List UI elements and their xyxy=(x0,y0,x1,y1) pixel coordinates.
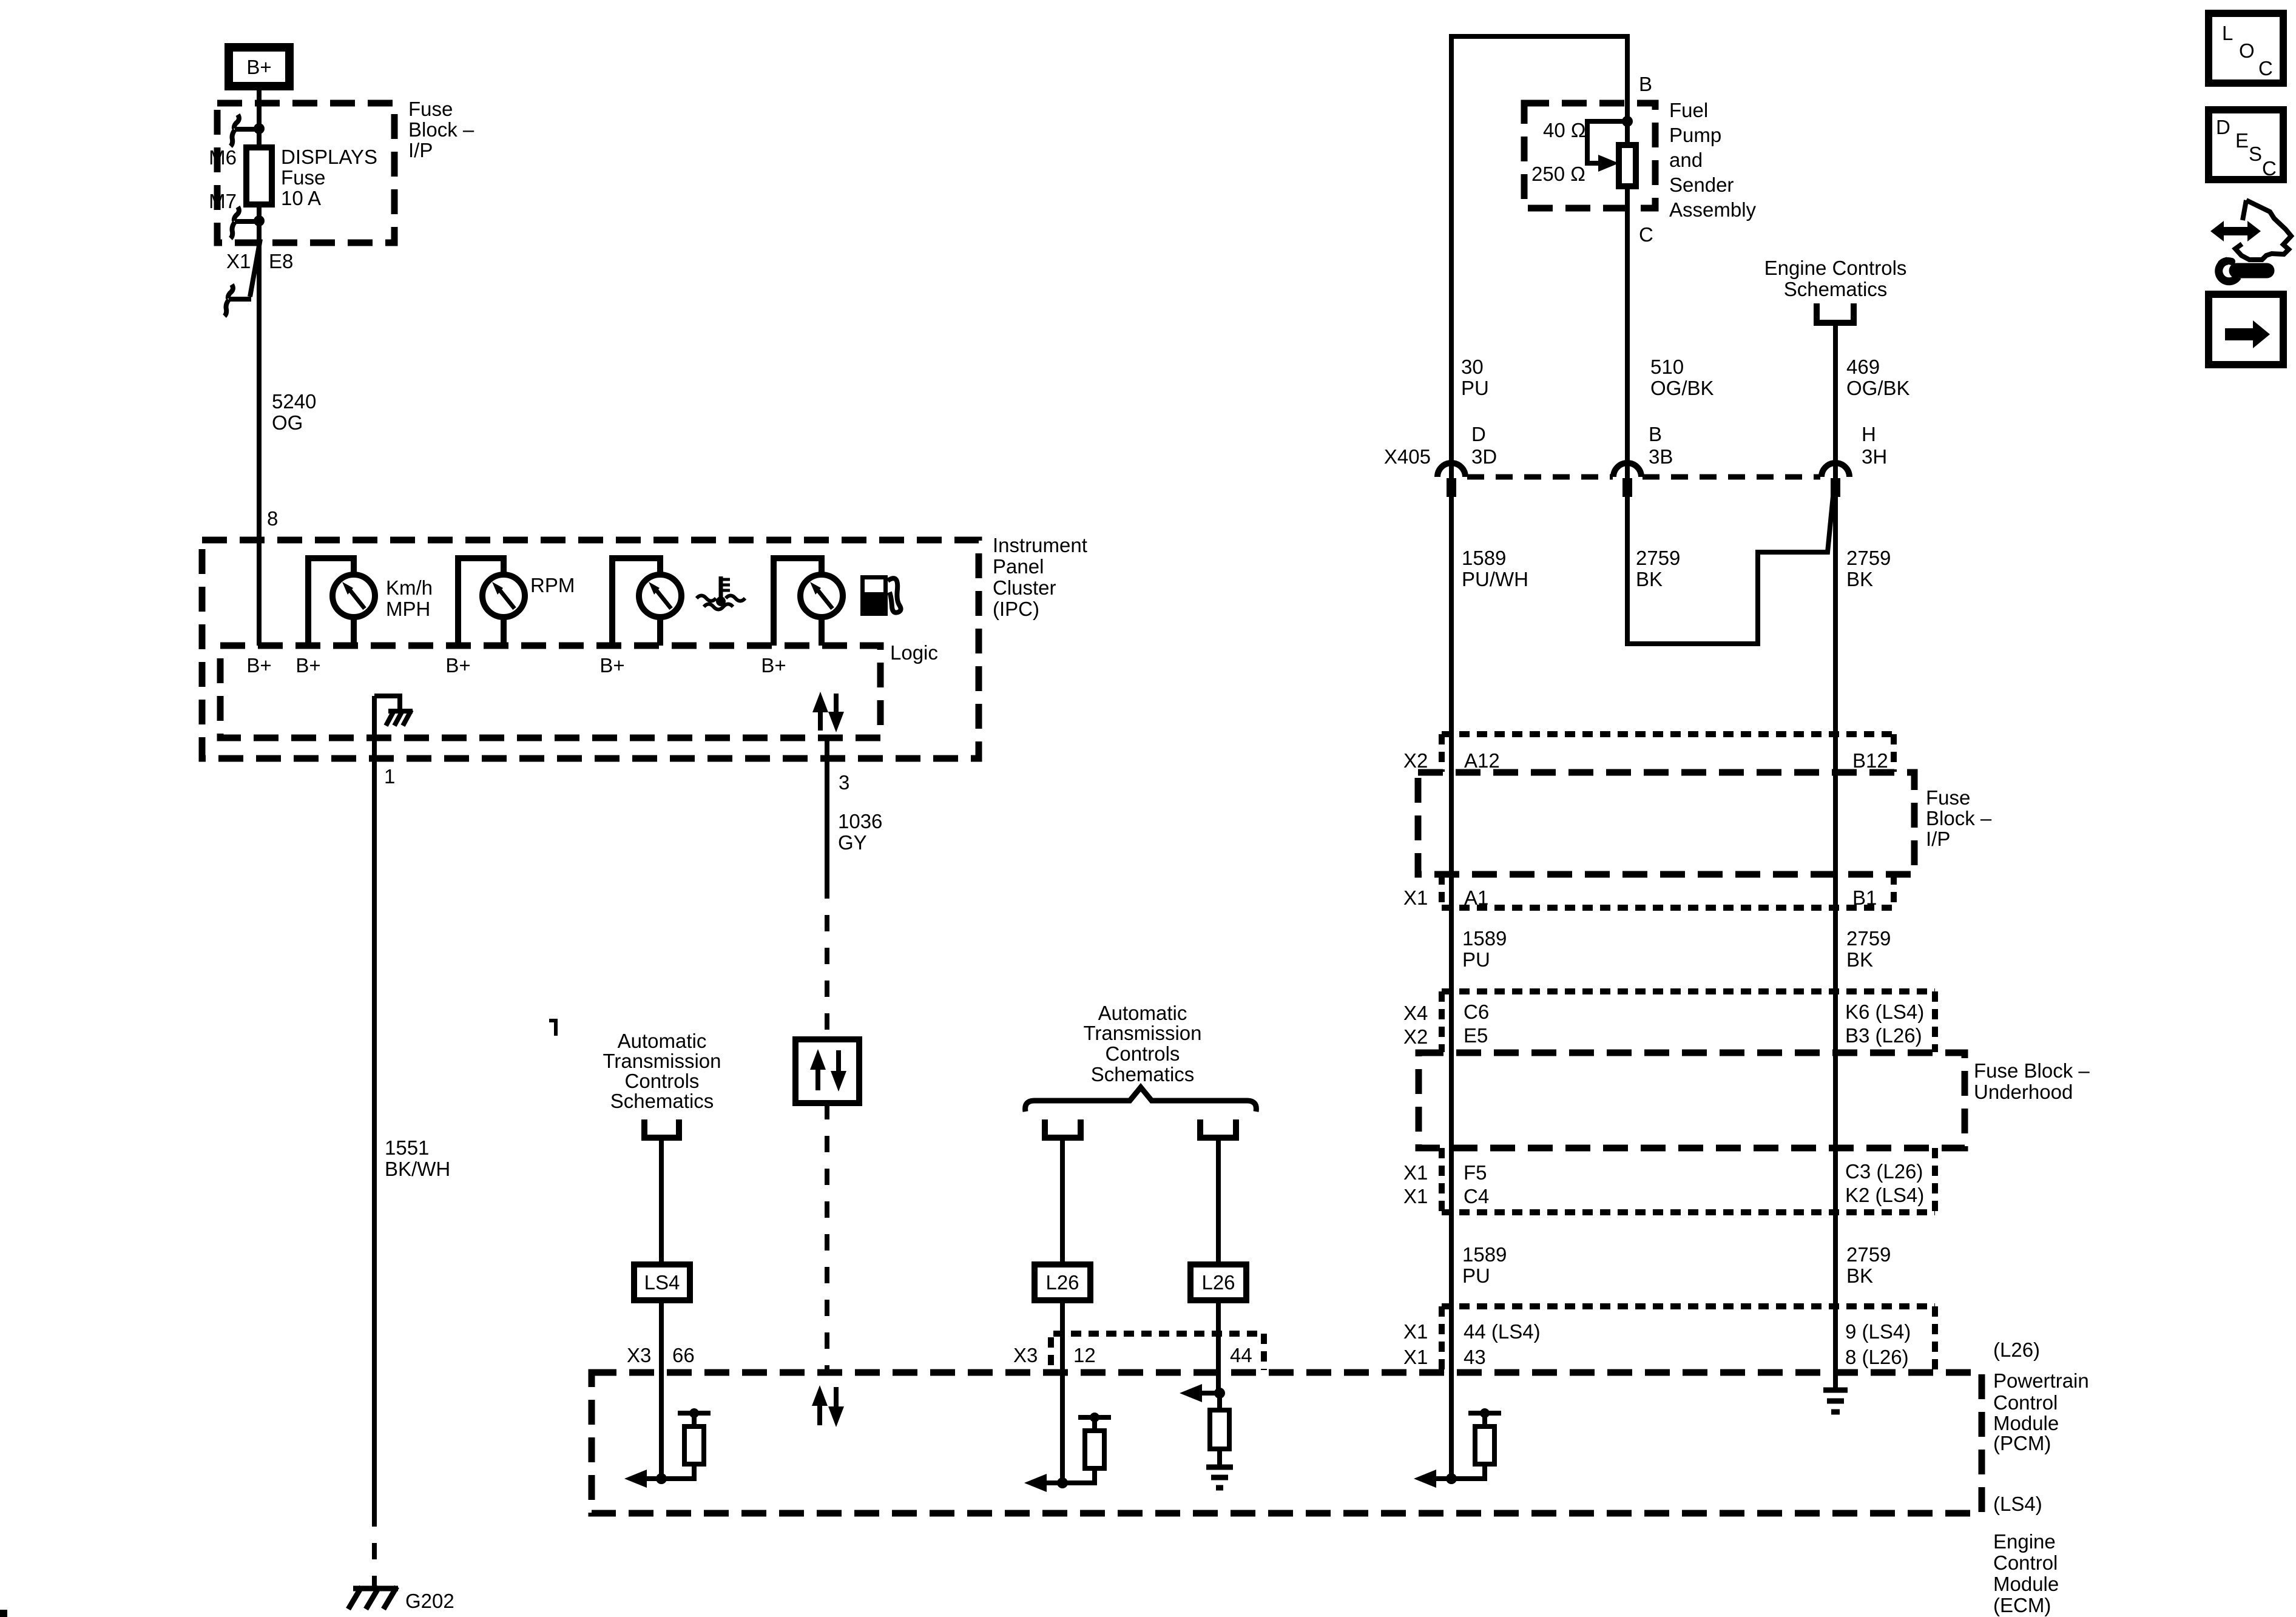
connector row X4/X2 C6/E5 dotted xyxy=(1442,991,1935,1052)
wire label 2759 BK (middle) xyxy=(1636,547,1680,590)
svg-text:Fuse: Fuse xyxy=(1926,786,1970,809)
svg-text:Km/h: Km/h xyxy=(386,576,433,599)
PCM internal circuit pin 12 xyxy=(1024,1413,1111,1492)
PCM internal circuit pin 43 xyxy=(1414,1408,1501,1488)
wire label 30 PU xyxy=(1461,356,1489,399)
svg-text:Fuse: Fuse xyxy=(281,166,325,189)
svg-text:DISPLAYS: DISPLAYS xyxy=(281,146,377,168)
svg-text:B: B xyxy=(1639,73,1652,95)
svg-text:G202: G202 xyxy=(405,1590,454,1612)
brace over L26 branches xyxy=(1025,1087,1257,1112)
fuse clip lower (M7) xyxy=(231,207,265,238)
wire 1589 PU/WH down to PCM xyxy=(1449,497,1454,1479)
svg-text:B+: B+ xyxy=(246,654,271,677)
page corner mark xyxy=(0,1610,7,1617)
svg-text:X1: X1 xyxy=(1403,1161,1428,1184)
wire 30 PU top bus xyxy=(1451,36,1627,479)
serial data arrow box xyxy=(795,1039,859,1103)
svg-text:D: D xyxy=(1471,423,1486,445)
svg-text:M6: M6 xyxy=(209,146,237,169)
label Fuse Block - I/P xyxy=(408,98,474,161)
svg-text:3D: 3D xyxy=(1471,445,1497,468)
svg-text:Assembly: Assembly xyxy=(1669,198,1757,221)
wire to L26 (44) xyxy=(1216,1138,1221,1264)
icon coolant temperature xyxy=(697,576,745,610)
svg-text:5240: 5240 xyxy=(272,390,316,413)
svg-text:469: 469 xyxy=(1846,356,1880,378)
svg-text:E: E xyxy=(2235,129,2249,152)
label Instrument Panel Cluster (IPC) xyxy=(993,534,1087,620)
svg-text:Schematics: Schematics xyxy=(610,1090,714,1112)
svg-text:H: H xyxy=(1862,423,1876,445)
connector row X2 A12/B12 dotted xyxy=(1442,734,1894,772)
svg-text:L26: L26 xyxy=(1045,1271,1079,1294)
svg-text:PU: PU xyxy=(1461,377,1489,399)
connector row X3 12/44 dotted xyxy=(1051,1334,1264,1370)
svg-text:Module: Module xyxy=(1993,1412,2059,1434)
label Automatic Transmission Controls Schematics (right) xyxy=(1084,1002,1202,1085)
label Powertrain Control Module (PCM) xyxy=(1993,1369,2089,1454)
svg-text:X2: X2 xyxy=(1403,1025,1428,1048)
svg-text:X405: X405 xyxy=(1384,445,1431,468)
svg-text:L: L xyxy=(2222,22,2233,44)
svg-text:1551: 1551 xyxy=(385,1136,429,1159)
connector X405 arc B xyxy=(1613,463,1641,477)
gauge fuel level xyxy=(774,558,843,646)
wire L26 to PCM pin 44 xyxy=(1216,1300,1221,1393)
svg-text:40 Ω: 40 Ω xyxy=(1543,119,1586,141)
svg-text:Engine: Engine xyxy=(1993,1530,2056,1553)
svg-text:GY: GY xyxy=(838,831,867,854)
svg-text:B+: B+ xyxy=(246,56,271,78)
svg-text:(PCM): (PCM) xyxy=(1993,1432,2051,1454)
Fuse Block - Underhood dashed box xyxy=(1419,1053,1965,1148)
wire to LS4 xyxy=(659,1138,664,1264)
svg-text:3B: 3B xyxy=(1649,445,1673,468)
svg-text:Automatic: Automatic xyxy=(618,1030,707,1052)
svg-text:B3 (L26): B3 (L26) xyxy=(1845,1024,1922,1047)
svg-text:B1: B1 xyxy=(1852,886,1877,909)
svg-text:BK/WH: BK/WH xyxy=(385,1158,450,1180)
svg-text:43: 43 xyxy=(1464,1346,1486,1368)
svg-text:Cluster: Cluster xyxy=(993,576,1056,599)
wire 469 OG/BK xyxy=(1833,323,1838,479)
connector row X1 F5/C4 dotted xyxy=(1442,1148,1935,1212)
svg-text:C: C xyxy=(2262,157,2277,180)
svg-text:1589: 1589 xyxy=(1462,927,1507,950)
svg-text:B12: B12 xyxy=(1852,749,1888,772)
wire from B+ through fuse to IPC xyxy=(257,90,262,646)
svg-text:44 (LS4): 44 (LS4) xyxy=(1464,1320,1541,1343)
off-page connector bracket (LS4 branch) xyxy=(644,1119,679,1138)
Fuse Block - I/P dashed box (top left) xyxy=(217,103,394,243)
gauge speedometer Km/h MPH xyxy=(308,558,375,646)
LS4 option box xyxy=(634,1264,690,1300)
wire label 1036 GY xyxy=(838,810,882,854)
wire dashed to PCM xyxy=(825,1103,829,1369)
icon fuel pump xyxy=(860,575,901,616)
svg-text:Control: Control xyxy=(1993,1551,2058,1574)
pin bar D xyxy=(1447,478,1456,497)
wire 2759 BK jog from pin B xyxy=(1627,496,1833,644)
svg-text:RPM: RPM xyxy=(530,574,575,596)
label Km/h MPH xyxy=(386,576,433,620)
svg-text:X2: X2 xyxy=(1403,749,1428,772)
svg-text:A1: A1 xyxy=(1464,886,1488,909)
svg-text:BK: BK xyxy=(1846,948,1873,971)
wire label 1589 PU/WH xyxy=(1462,547,1528,590)
svg-text:X1: X1 xyxy=(1403,1346,1428,1368)
svg-text:10 A: 10 A xyxy=(281,187,321,209)
svg-text:Controls: Controls xyxy=(1106,1042,1180,1065)
B+ power symbol xyxy=(229,47,289,86)
wire label 2759 BK (lower) xyxy=(1846,1243,1891,1287)
connector X405 dashed line xyxy=(1467,474,1820,480)
pin bar B xyxy=(1622,478,1632,497)
svg-text:2759: 2759 xyxy=(1846,1243,1891,1266)
label Fuel Pump and Sender Assembly xyxy=(1669,99,1757,221)
svg-text:A12: A12 xyxy=(1464,749,1500,772)
svg-text:S: S xyxy=(2249,143,2262,165)
svg-text:(IPC): (IPC) xyxy=(993,598,1039,620)
svg-text:Control: Control xyxy=(1993,1391,2058,1414)
wire label 469 OG/BK xyxy=(1846,356,1910,399)
PCM internal ground pin 8 xyxy=(1823,1390,1848,1412)
svg-text:(L26): (L26) xyxy=(1993,1338,2040,1361)
svg-text:2759: 2759 xyxy=(1846,547,1891,569)
svg-text:9 (LS4): 9 (LS4) xyxy=(1845,1320,1911,1343)
IPC internal ground xyxy=(374,696,413,726)
svg-text:B+: B+ xyxy=(761,654,786,677)
svg-text:X1: X1 xyxy=(1403,1320,1428,1343)
wire label 2759 BK (right) xyxy=(1846,547,1891,590)
svg-text:2759: 2759 xyxy=(1846,927,1891,950)
svg-text:3H: 3H xyxy=(1862,445,1887,468)
svg-text:and: and xyxy=(1669,149,1703,171)
connector row X1 A1/B1 dotted xyxy=(1442,874,1894,908)
node fuel sender junction xyxy=(1622,116,1633,127)
svg-text:Underhood: Underhood xyxy=(1974,1081,2073,1103)
label Automatic Transmission Controls Schematics (left) xyxy=(603,1030,721,1112)
wire L26 to PCM pin 12 xyxy=(1060,1300,1065,1483)
svg-text:Transmission: Transmission xyxy=(1084,1022,1202,1044)
wire label 1589 PU (lower) xyxy=(1462,1243,1507,1287)
svg-text:C6: C6 xyxy=(1464,1001,1489,1023)
svg-text:F5: F5 xyxy=(1464,1161,1487,1184)
svg-text:X3: X3 xyxy=(627,1344,651,1366)
Logic dashed box inside IPC xyxy=(220,646,880,738)
PCM internal circuit pin 66 xyxy=(624,1408,711,1488)
svg-text:Panel: Panel xyxy=(993,555,1044,578)
label Fuse Block - I/P (right) xyxy=(1926,786,1992,850)
svg-text:C4: C4 xyxy=(1464,1185,1489,1207)
fuse clip upper (M6) xyxy=(231,115,265,146)
svg-text:B+: B+ xyxy=(445,654,470,677)
svg-text:Powertrain: Powertrain xyxy=(1993,1369,2089,1392)
L26 option box (44) xyxy=(1190,1264,1246,1300)
svg-text:8 (L26): 8 (L26) xyxy=(1845,1346,1909,1368)
off-page connector bracket (469 circuit) xyxy=(1817,303,1854,323)
svg-text:Module: Module xyxy=(1993,1573,2059,1595)
wire label 1589 PU (mid) xyxy=(1462,927,1507,971)
reference mark 1 (corner tick) xyxy=(549,1021,556,1036)
svg-text:I/P: I/P xyxy=(408,139,433,161)
svg-text:C: C xyxy=(1639,223,1653,246)
svg-text:Instrument: Instrument xyxy=(993,534,1087,556)
wire label 1551 BK/WH xyxy=(385,1136,450,1180)
svg-text:Controls: Controls xyxy=(625,1070,700,1092)
svg-text:Fuse: Fuse xyxy=(408,98,453,120)
svg-text:PU: PU xyxy=(1462,1264,1490,1287)
svg-text:3: 3 xyxy=(839,771,849,794)
svg-text:X4: X4 xyxy=(1403,1002,1428,1024)
gauge tachometer RPM xyxy=(458,558,525,646)
svg-text:Pump: Pump xyxy=(1669,124,1721,146)
svg-text:Logic: Logic xyxy=(890,641,938,664)
label Fuse Block - Underhood xyxy=(1974,1059,2090,1103)
connector row X1 44/43 dotted xyxy=(1442,1306,1935,1370)
svg-text:PU: PU xyxy=(1462,948,1490,971)
serial data arrows at PCM xyxy=(812,1385,844,1427)
icon DESC box xyxy=(2209,110,2283,180)
svg-text:250 Ω: 250 Ω xyxy=(1531,163,1585,185)
Powertrain Control Module dashed box xyxy=(592,1372,1982,1513)
svg-text:E8: E8 xyxy=(269,250,293,272)
svg-text:BK: BK xyxy=(1846,568,1873,590)
Instrument Panel Cluster dashed box xyxy=(202,540,979,758)
svg-text:C: C xyxy=(2258,57,2273,79)
connector X405 arc D xyxy=(1437,463,1465,477)
wire 1551 BK/WH to G202 xyxy=(372,696,377,1510)
svg-text:MPH: MPH xyxy=(386,598,430,620)
logic serial data arrows xyxy=(812,692,844,732)
wire LS4 to PCM pin 66 xyxy=(659,1300,664,1479)
fuel sender variable resistor xyxy=(1587,121,1636,186)
svg-text:B: B xyxy=(1649,423,1662,445)
wire label 5240 OG xyxy=(272,390,316,434)
svg-text:X1: X1 xyxy=(1403,1185,1428,1207)
svg-text:D: D xyxy=(2216,116,2230,138)
fuse DISPLAYS 10A xyxy=(246,147,272,204)
svg-text:B+: B+ xyxy=(295,654,320,677)
svg-text:L26: L26 xyxy=(1201,1271,1235,1294)
svg-text:2759: 2759 xyxy=(1636,547,1680,569)
svg-text:Schematics: Schematics xyxy=(1784,278,1888,300)
wire dashed segment to G202 xyxy=(372,1510,377,1586)
label Engine Control Module (ECM) xyxy=(1993,1530,2059,1616)
svg-text:C3 (L26): C3 (L26) xyxy=(1845,1160,1923,1183)
label DISPLAYS Fuse 10 A xyxy=(281,146,377,209)
wire 510 OG/BK from sender C xyxy=(1625,186,1630,479)
wire 1036 GY dashed part xyxy=(825,882,829,1039)
icon LOC box xyxy=(2209,13,2283,83)
svg-text:K6 (LS4): K6 (LS4) xyxy=(1845,1001,1924,1023)
svg-text:BK: BK xyxy=(1636,568,1663,590)
svg-text:(LS4): (LS4) xyxy=(1993,1493,2042,1515)
off-page connector bracket (L26 branch 44) xyxy=(1200,1119,1236,1138)
svg-text:BK: BK xyxy=(1846,1264,1873,1287)
svg-text:Block –: Block – xyxy=(1926,807,1992,829)
svg-text:66: 66 xyxy=(672,1344,695,1366)
svg-text:OG/BK: OG/BK xyxy=(1650,377,1714,399)
svg-text:X1: X1 xyxy=(226,250,251,272)
Fuse Block - I/P dashed box (right) xyxy=(1418,772,1914,874)
svg-text:PU/WH: PU/WH xyxy=(1462,568,1528,590)
svg-text:Transmission: Transmission xyxy=(603,1050,721,1072)
svg-text:LS4: LS4 xyxy=(644,1271,680,1294)
off-page connector bracket (L26 branch 12) xyxy=(1045,1119,1081,1138)
svg-text:X1: X1 xyxy=(1403,886,1428,909)
svg-text:B+: B+ xyxy=(599,654,624,677)
svg-text:(ECM): (ECM) xyxy=(1993,1594,2051,1616)
svg-text:M7: M7 xyxy=(209,190,237,212)
svg-text:510: 510 xyxy=(1650,356,1684,378)
svg-text:Schematics: Schematics xyxy=(1091,1063,1195,1085)
wire label 510 OG/BK xyxy=(1650,356,1714,399)
svg-text:12: 12 xyxy=(1073,1344,1096,1366)
Fuel Pump and Sender Assembly dashed box xyxy=(1524,103,1655,208)
svg-text:1589: 1589 xyxy=(1462,547,1506,569)
svg-text:Automatic: Automatic xyxy=(1098,1002,1187,1024)
icon hand with wrench xyxy=(2210,200,2291,282)
svg-text:Block –: Block – xyxy=(408,118,474,141)
svg-text:X3: X3 xyxy=(1013,1344,1038,1366)
connector X405 arc H xyxy=(1822,463,1849,477)
svg-text:O: O xyxy=(2239,39,2255,62)
ground G202 chassis symbol xyxy=(348,1587,398,1609)
svg-text:1589: 1589 xyxy=(1462,1243,1507,1266)
connector X1 E8 slash and clip xyxy=(225,239,260,316)
svg-text:OG/BK: OG/BK xyxy=(1846,377,1910,399)
svg-text:8: 8 xyxy=(267,507,278,530)
svg-text:44: 44 xyxy=(1230,1344,1252,1366)
svg-text:I/P: I/P xyxy=(1926,828,1950,850)
svg-text:Fuel: Fuel xyxy=(1669,99,1708,121)
svg-text:OG: OG xyxy=(272,411,303,434)
icon forward arrow box xyxy=(2209,294,2283,365)
L26 option box (12) xyxy=(1035,1264,1090,1300)
svg-text:Engine Controls: Engine Controls xyxy=(1764,257,1907,279)
wire label 2759 BK (mid) xyxy=(1846,927,1891,971)
svg-text:E5: E5 xyxy=(1464,1024,1488,1047)
pin bar H xyxy=(1831,478,1840,497)
label Engine Controls Schematics xyxy=(1764,257,1907,300)
PCM internal circuit pin 44 with ground xyxy=(1180,1384,1233,1488)
svg-text:1036: 1036 xyxy=(838,810,882,832)
gauge coolant temperature xyxy=(612,558,681,646)
svg-text:K2 (LS4): K2 (LS4) xyxy=(1845,1184,1924,1206)
wire 1036 GY solid part xyxy=(825,738,829,882)
svg-text:Sender: Sender xyxy=(1669,174,1734,196)
svg-text:30: 30 xyxy=(1461,356,1484,378)
svg-text:Fuse Block –: Fuse Block – xyxy=(1974,1059,2090,1082)
wire 2759 BK right main xyxy=(1833,497,1838,1390)
wire to L26 (12) xyxy=(1060,1138,1065,1264)
svg-text:1: 1 xyxy=(384,765,395,788)
